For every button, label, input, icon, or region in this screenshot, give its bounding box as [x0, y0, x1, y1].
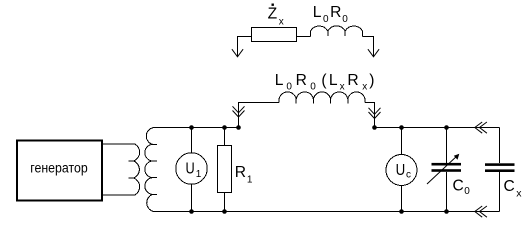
wire: Zx to L0R0 inductor — [297, 36, 311, 38]
transformer primary coil (3 arcs) — [129, 144, 140, 195]
svg-text:R: R — [347, 72, 358, 89]
wire: top subcircuit right lead — [363, 37, 374, 58]
resistor Zx box — [252, 28, 297, 42]
svg-text:1: 1 — [196, 169, 202, 180]
junction dot top rail R1 — [222, 125, 227, 130]
junction dot top rail U1 — [189, 125, 194, 130]
junction dot bottom rail C0 — [444, 209, 449, 214]
svg-text:R: R — [235, 164, 246, 181]
svg-text:c: c — [406, 170, 411, 181]
svg-text:U: U — [186, 161, 195, 178]
svg-text:генератор: генератор — [30, 161, 88, 176]
voltmeter Uc — [386, 155, 417, 186]
svg-text:0: 0 — [310, 82, 316, 93]
voltmeter U1 — [176, 153, 208, 185]
svg-text:1: 1 — [247, 175, 253, 186]
chevron bottom rail (detachable contact to Cx) — [475, 206, 487, 217]
transformer secondary coil (4 arcs) — [145, 128, 157, 212]
wire: generator to transformer primary top — [103, 143, 135, 145]
svg-text:L: L — [329, 72, 338, 89]
svg-text:L: L — [275, 72, 284, 89]
svg-text:x: x — [362, 82, 367, 93]
junction dot bottom rail R1 — [222, 209, 227, 214]
capacitor Cx plates — [485, 163, 515, 166]
wire: R1 branch top — [224, 128, 226, 146]
inductor L0R0 (top subcircuit, 3 arcs) — [311, 26, 363, 37]
svg-text:L: L — [313, 4, 322, 21]
svg-text:): ) — [369, 72, 374, 89]
svg-text:0: 0 — [342, 14, 348, 25]
wire: top subcircuit left lead — [238, 37, 252, 58]
svg-text:R: R — [296, 72, 307, 89]
svg-text:U: U — [396, 162, 406, 179]
connector chevron left (detachable contact) — [233, 106, 245, 117]
svg-text:x: x — [279, 17, 284, 28]
svg-text:x: x — [516, 188, 522, 200]
dot above Z (impedance) — [272, 4, 274, 6]
wire: U1 branch top — [191, 128, 193, 153]
resistor R1 — [218, 146, 232, 193]
arrow right (top subcircuit) — [368, 49, 379, 57]
wire: main inductor right connector — [365, 103, 375, 128]
svg-text:C: C — [504, 178, 515, 195]
svg-text:0: 0 — [286, 82, 292, 93]
generator box — [17, 140, 102, 200]
junction dot top rail C0 — [444, 125, 449, 130]
wire: Cx branch (top corner and bottom) — [499, 128, 501, 212]
junction dot top rail left connector — [236, 125, 241, 130]
arrow left (top subcircuit) — [232, 49, 243, 57]
wire: R1 branch bottom — [224, 193, 226, 212]
svg-text:(: ( — [321, 72, 327, 89]
connector chevron right (detachable contact) — [369, 108, 381, 119]
wire: bottom rail — [153, 211, 499, 213]
wire: C0 branch bottom — [446, 172, 448, 212]
wire: Uc branch top — [401, 128, 403, 155]
svg-text:Z: Z — [268, 6, 278, 23]
svg-text:x: x — [340, 82, 345, 93]
junction dot bottom rail Uc — [399, 209, 404, 214]
junction dot top rail right connector — [372, 125, 377, 130]
inductor L0R0 (LxRx) (5 arcs) — [279, 92, 365, 103]
junction dot bottom rail U1 — [189, 209, 194, 214]
wire: left connector to main inductor — [239, 103, 280, 128]
svg-text:0: 0 — [464, 186, 470, 197]
wire: top rail right — [375, 127, 500, 129]
capacitor C0 arrow head — [454, 154, 460, 160]
wire: U1 branch bottom — [191, 184, 193, 211]
capacitor C0 variable arrow — [427, 156, 457, 184]
junction dot top rail Uc — [399, 125, 404, 130]
chevron top rail (detachable contact to Cx) — [475, 122, 487, 133]
capacitor C0 plates — [432, 163, 462, 166]
svg-text:C: C — [453, 178, 464, 195]
wire: top rail left — [155, 127, 239, 129]
wire: Uc branch bottom — [401, 186, 403, 212]
wire: generator to transformer primary bottom — [103, 194, 135, 196]
wire: C0 branch top — [446, 128, 448, 164]
svg-text:0: 0 — [323, 14, 329, 25]
svg-text:R: R — [330, 4, 341, 21]
